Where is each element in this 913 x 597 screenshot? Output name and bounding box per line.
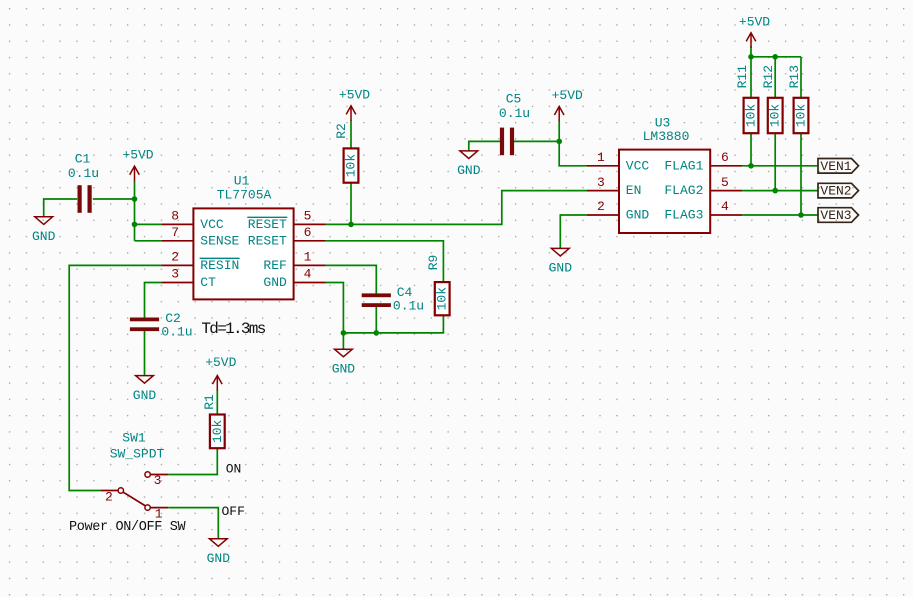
junction FLAG1/R11: [748, 163, 754, 169]
svg-text:SW1: SW1: [122, 431, 146, 446]
resistor R9 10k: [426, 255, 450, 316]
U3 pin 2: [587, 199, 619, 215]
wire C5 gnd side: [469, 141, 501, 151]
svg-text:GND: GND: [332, 362, 356, 377]
U1 pin 8: [161, 209, 193, 225]
svg-text:5: 5: [721, 175, 729, 190]
IC U1 TL7705A: [193, 174, 293, 300]
U1 pin 6: [294, 225, 326, 241]
svg-text:R1: R1: [202, 394, 217, 410]
svg-text:OFF: OFF: [222, 504, 245, 519]
svg-text:+5VD: +5VD: [552, 88, 583, 103]
svg-text:+5VD: +5VD: [739, 14, 770, 29]
U1 pin 3: [161, 267, 193, 283]
svg-text:10k: 10k: [435, 287, 450, 311]
power +5VD near C1: [122, 148, 153, 182]
svg-text:TL7705A: TL7705A: [217, 188, 272, 203]
svg-text:8: 8: [171, 209, 179, 224]
svg-text:R2: R2: [334, 123, 349, 139]
svg-text:FLAG2: FLAG2: [664, 183, 703, 198]
svg-text:GND: GND: [549, 261, 573, 276]
svg-text:10k: 10k: [210, 419, 225, 443]
svg-text:GND: GND: [626, 208, 650, 223]
ground below C2: [133, 376, 157, 403]
svg-text:VEN1: VEN1: [820, 159, 851, 174]
svg-text:VCC: VCC: [626, 158, 650, 173]
ground near C1: [32, 217, 56, 244]
svg-text:2: 2: [597, 199, 605, 214]
capacitor C5 0.1u: [499, 92, 530, 156]
svg-text:GND: GND: [207, 551, 231, 566]
wire U1 GND to bottom rail: [326, 283, 344, 333]
wire R2 to +5VD: [350, 120, 352, 148]
svg-text:GND: GND: [133, 388, 157, 403]
svg-text:10k: 10k: [768, 104, 783, 128]
svg-text:R9: R9: [426, 255, 441, 271]
svg-text:1: 1: [304, 250, 312, 265]
svg-text:0.1u: 0.1u: [499, 106, 530, 121]
power +5VD top right: [739, 14, 770, 48]
U1 pin 7: [161, 225, 193, 241]
wire rail to R13: [800, 57, 802, 98]
svg-text:0.1u: 0.1u: [161, 324, 192, 339]
junction pullup rail A: [748, 54, 754, 60]
svg-text:R13: R13: [787, 65, 802, 88]
IC U3 LM3880: [619, 116, 710, 234]
power +5VD near C5: [552, 88, 583, 122]
svg-text:+5VD: +5VD: [339, 87, 370, 102]
svg-text:1: 1: [597, 150, 605, 165]
junction pullup rail B: [772, 54, 778, 60]
wire U1 RESET6 to R9: [326, 241, 444, 282]
capacitor C4 0.1u: [362, 285, 424, 314]
svg-text:GND: GND: [263, 275, 287, 290]
U3 pin 6: [710, 150, 742, 166]
svg-text:RESET: RESET: [248, 217, 287, 232]
svg-text:LM3880: LM3880: [643, 129, 690, 144]
wire C2 to GND: [144, 329, 146, 375]
wire FLAG2 to VEN2: [742, 190, 818, 192]
power +5VD above R2: [339, 87, 370, 121]
svg-text:VEN3: VEN3: [820, 208, 851, 223]
U1 pin 5: [294, 209, 326, 225]
wire node to U1 VCC: [135, 223, 162, 225]
svg-text:6: 6: [721, 150, 729, 165]
hierarchical label VEN2: [818, 183, 859, 198]
junction C1/+5VD: [132, 196, 138, 202]
svg-text:2: 2: [171, 250, 179, 265]
ground below switch: [207, 539, 231, 566]
svg-text:3: 3: [171, 267, 179, 282]
U3 pin 1: [587, 150, 619, 166]
wire U3 GND to ground: [560, 215, 587, 248]
wire C1 gnd side: [44, 199, 77, 217]
wire bottom rail to R9: [343, 315, 443, 333]
wire FLAG1 to VEN1: [742, 165, 818, 167]
wire +5VD top right riser: [750, 46, 752, 98]
ground below C4 rail: [332, 349, 356, 376]
svg-text:Power ON/OFF SW: Power ON/OFF SW: [69, 520, 187, 535]
svg-text:GND: GND: [32, 229, 56, 244]
wire R1 to switch pin3 / ON: [168, 448, 217, 474]
resistor R2 10k: [334, 123, 358, 183]
svg-text:R12: R12: [761, 65, 776, 88]
svg-text:C1: C1: [75, 152, 91, 167]
wire rail to R12: [774, 57, 776, 98]
wire U1 REF to C4: [326, 265, 377, 295]
U3 pin 3: [587, 175, 619, 191]
wire +5VD to U3 VCC: [559, 121, 587, 166]
junction FLAG3/R13: [798, 212, 804, 218]
svg-text:RESIN: RESIN: [200, 258, 239, 273]
wire U1 CT to C2: [145, 283, 162, 320]
svg-text:Td=1.3ms: Td=1.3ms: [201, 320, 265, 338]
svg-text:U1: U1: [234, 174, 250, 189]
wire rail to GND: [342, 333, 344, 349]
junction C5/+5VD: [556, 139, 562, 145]
junction FLAG2/R12: [772, 188, 778, 194]
wire FLAG3 to VEN3: [742, 214, 818, 216]
hierarchical label VEN1: [818, 159, 859, 174]
resistor R11 10k: [735, 65, 758, 133]
ground below U3: [549, 248, 573, 275]
svg-text:10k: 10k: [344, 154, 359, 178]
wire +5VD to R1: [216, 390, 218, 415]
ground near C5: [457, 151, 481, 178]
svg-text:3: 3: [597, 175, 605, 190]
svg-text:FLAG1: FLAG1: [664, 158, 703, 173]
wire R13 to FLAG3: [800, 133, 802, 215]
wire R11 to FLAG1: [750, 133, 752, 166]
wire node to U1 SENSE: [135, 240, 162, 242]
U1 pin 1: [294, 250, 326, 266]
switch SW1 SW_SPDT: [101, 431, 169, 511]
svg-text:+5VD: +5VD: [122, 148, 153, 163]
svg-text:5: 5: [304, 209, 312, 224]
svg-text:CT: CT: [200, 275, 216, 290]
wire R2 to RESET node: [350, 183, 352, 225]
capacitor C1 0.1u: [68, 152, 99, 213]
svg-text:EN: EN: [626, 183, 642, 198]
junction R2/RESET: [348, 222, 354, 228]
wire C4 bottom: [375, 305, 377, 333]
svg-text:0.1u: 0.1u: [68, 166, 99, 181]
svg-text:VCC: VCC: [200, 217, 224, 232]
hierarchical label VEN3: [818, 208, 859, 223]
U3 pin 4: [710, 199, 742, 215]
wire C5 to +5VD node: [513, 140, 559, 142]
svg-text:6: 6: [304, 225, 312, 240]
svg-text:GND: GND: [457, 163, 481, 178]
svg-text:10k: 10k: [744, 104, 759, 128]
svg-text:0.1u: 0.1u: [393, 298, 424, 313]
svg-text:C5: C5: [506, 92, 522, 107]
wire C1 to +5VD node: [93, 198, 135, 200]
svg-text:4: 4: [721, 199, 729, 214]
svg-text:4: 4: [304, 267, 312, 282]
svg-text:R11: R11: [735, 65, 750, 89]
resistor R1 10k: [202, 394, 225, 448]
svg-text:SENSE: SENSE: [200, 233, 239, 248]
svg-text:SW_SPDT: SW_SPDT: [110, 447, 165, 462]
svg-text:VEN2: VEN2: [820, 184, 851, 199]
svg-text:10k: 10k: [794, 104, 809, 128]
svg-text:7: 7: [171, 225, 179, 240]
U1 pin 4: [294, 267, 326, 283]
svg-text:ON: ON: [226, 462, 242, 477]
wire switch pin1 to OFF / GND: [168, 508, 218, 539]
wire pullup rail: [751, 56, 801, 58]
wire +5VD riser to VCC/SENSE: [134, 181, 136, 241]
svg-text:2: 2: [105, 489, 113, 504]
junction GND rail A: [341, 330, 347, 336]
U1 pin 2: [161, 250, 193, 266]
svg-text:+5VD: +5VD: [205, 355, 236, 370]
wire U1 RESIN to switch pin2: [69, 265, 161, 490]
U3 pin 5: [710, 175, 742, 191]
svg-text:3: 3: [154, 473, 162, 488]
capacitor C2 0.1u: [130, 311, 193, 340]
resistor R12 10k: [761, 65, 783, 133]
svg-text:REF: REF: [263, 258, 286, 273]
junction GND rail B: [374, 330, 380, 336]
wire RESET to U3 EN: [326, 191, 587, 225]
svg-text:RESET: RESET: [248, 233, 287, 248]
junction VCC node: [132, 222, 138, 228]
wire R12 to FLAG2: [774, 133, 776, 190]
svg-text:FLAG3: FLAG3: [664, 208, 703, 223]
power +5VD above R1: [205, 355, 236, 391]
resistor R13 10k: [787, 65, 809, 133]
